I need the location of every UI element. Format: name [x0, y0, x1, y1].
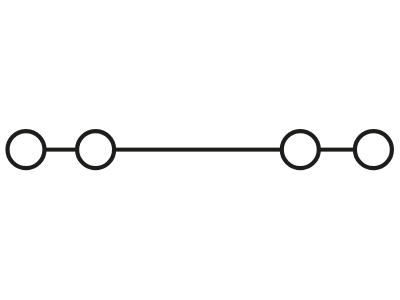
node 1 (left terminal): [8, 131, 45, 168]
node 3: [282, 131, 319, 168]
wire: [26, 148, 373, 152]
node 4 (right terminal): [355, 131, 392, 168]
node 2: [77, 131, 114, 168]
